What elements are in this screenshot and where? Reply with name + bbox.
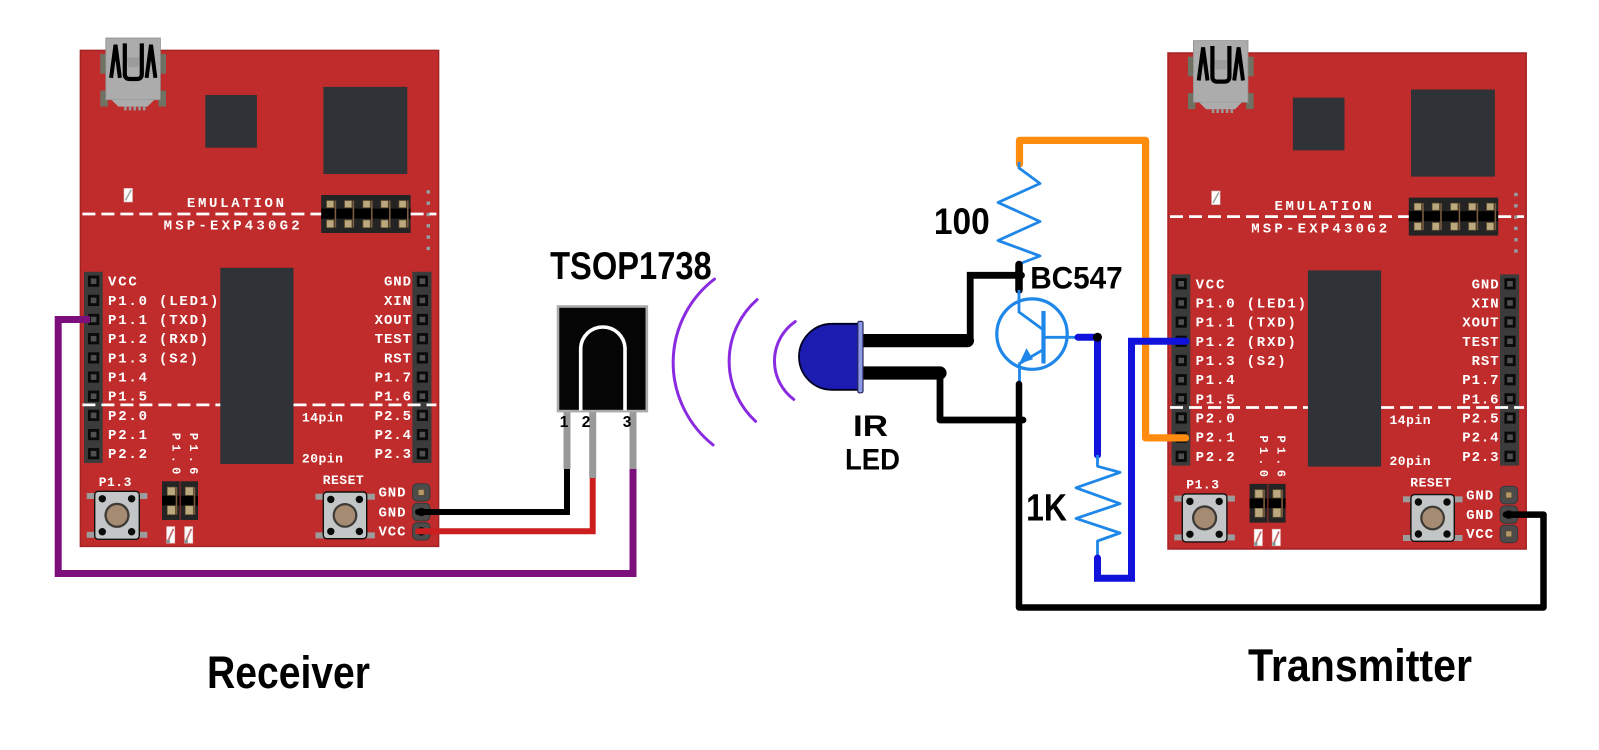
svg-text:2: 2 [582, 414, 591, 431]
svg-text:1K: 1K [1026, 488, 1067, 530]
svg-text:Transmitter: Transmitter [1248, 640, 1472, 691]
svg-text:LED: LED [845, 443, 900, 476]
svg-text:BC547: BC547 [1030, 260, 1123, 296]
svg-text:Receiver: Receiver [207, 647, 370, 698]
svg-text:1: 1 [560, 414, 569, 431]
svg-text:TSOP1738: TSOP1738 [550, 245, 712, 288]
svg-text:IR: IR [853, 410, 888, 443]
svg-text:3: 3 [623, 414, 632, 431]
svg-text:100: 100 [934, 201, 990, 242]
